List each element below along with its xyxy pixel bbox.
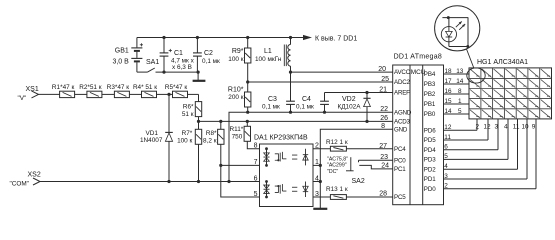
svg-text:XS1: XS1 [26,86,39,93]
svg-text:28: 28 [379,190,387,197]
svg-text:DD1 ATmega8: DD1 ATmega8 [394,54,442,61]
svg-text:0,1 мк: 0,1 мк [202,58,220,65]
svg-text:15: 15 [444,98,452,105]
svg-text:7: 7 [254,159,258,166]
svg-text:21: 21 [379,86,387,93]
svg-text:3,0 В: 3,0 В [112,58,129,65]
svg-text:200 к: 200 к [228,94,243,101]
svg-text:8: 8 [458,88,462,95]
svg-text:14: 14 [444,108,452,115]
svg-text:5: 5 [458,108,462,115]
svg-text:24: 24 [381,163,389,170]
svg-text:"AC299": "AC299" [327,163,347,169]
svg-text:100 мкГн: 100 мкГн [255,56,282,63]
svg-text:PC0: PC0 [394,157,406,164]
svg-text:12: 12 [444,124,452,131]
svg-text:12: 12 [484,123,492,130]
svg-text:9: 9 [532,123,536,130]
svg-text:PD5: PD5 [424,137,436,144]
svg-text:PC1: PC1 [394,166,406,173]
svg-text:XS2: XS2 [28,171,41,178]
svg-text:R8*: R8* [206,130,217,137]
svg-text:PD6: PD6 [424,127,436,134]
svg-text:"AC75,8": "AC75,8" [327,156,348,162]
svg-text:4: 4 [504,123,508,130]
svg-text:R2*51 к: R2*51 к [79,84,102,91]
svg-text:R5*47 к: R5*47 к [165,84,188,91]
svg-text:5: 5 [444,153,448,160]
svg-text:AGND: AGND [394,109,412,116]
svg-text:13: 13 [456,68,464,75]
svg-text:100 к: 100 к [228,56,243,63]
svg-text:"V": "V" [18,95,27,102]
svg-text:2: 2 [444,183,448,190]
svg-text:5: 5 [254,191,258,198]
svg-text:КД102А: КД102А [338,103,362,110]
svg-text:C4: C4 [302,96,311,103]
svg-text:14: 14 [456,78,464,85]
svg-text:750: 750 [232,134,243,141]
svg-text:1N4007: 1N4007 [140,137,163,144]
svg-text:х 6,3 В: х 6,3 В [172,64,192,71]
svg-text:ACD3: ACD3 [394,119,411,126]
svg-text:100 к: 100 к [177,138,192,145]
svg-text:C2: C2 [204,50,213,57]
svg-text:25: 25 [381,76,389,83]
svg-text:PD2: PD2 [424,166,436,173]
svg-text:PD1: PD1 [424,176,436,183]
svg-text:R4* 51 к: R4* 51 к [133,84,157,91]
svg-text:8,2 к: 8,2 к [203,138,217,145]
svg-text:3: 3 [444,173,448,180]
svg-text:26: 26 [380,115,388,122]
svg-text:PB1: PB1 [424,101,436,108]
svg-text:PB0: PB0 [424,111,436,118]
svg-text:"COM": "COM" [10,181,29,188]
svg-text:23: 23 [380,154,388,161]
svg-text:R11*: R11* [230,126,244,133]
svg-text:PD3: PD3 [424,157,436,164]
svg-text:AREF: AREF [394,90,410,97]
svg-text:8: 8 [381,123,385,130]
svg-text:6: 6 [444,144,448,151]
svg-text:VD2: VD2 [342,96,356,103]
svg-text:ADC2: ADC2 [394,79,411,86]
svg-text:8: 8 [254,143,258,150]
svg-text:К выв. 7 DD1: К выв. 7 DD1 [315,36,357,43]
svg-text:AVCC: AVCC [394,69,411,76]
svg-text:1: 1 [458,98,462,105]
svg-text:R6*: R6* [183,103,194,110]
svg-text:R9*: R9* [232,48,244,55]
svg-text:DA1 КР293КП4В: DA1 КР293КП4В [254,135,308,142]
svg-text:PD0: PD0 [424,186,436,193]
svg-text:16: 16 [444,88,452,95]
svg-text:18: 18 [444,68,452,75]
svg-text:PB2: PB2 [424,91,436,98]
svg-text:"DC": "DC" [327,169,338,175]
svg-text:51 к: 51 к [182,111,194,118]
svg-text:PD4: PD4 [424,147,436,154]
svg-text:PC4: PC4 [394,146,406,153]
svg-text:11: 11 [513,123,520,130]
svg-text:17: 17 [444,78,452,85]
svg-text:3: 3 [495,123,499,130]
svg-text:R7*: R7* [182,130,193,137]
svg-text:R1*47 к: R1*47 к [52,84,75,91]
svg-text:PB3: PB3 [424,81,436,88]
svg-text:L1: L1 [264,48,272,55]
svg-text:10: 10 [522,123,530,130]
svg-text:4: 4 [444,163,448,170]
svg-text:HG1 АЛС340А1: HG1 АЛС340А1 [477,59,528,66]
svg-text:0,1 мк: 0,1 мк [262,103,280,110]
svg-text:0,1 мк: 0,1 мк [296,103,314,110]
svg-text:SA2: SA2 [352,178,365,185]
svg-text:GND: GND [394,127,408,134]
svg-text:2: 2 [476,123,480,130]
svg-text:20: 20 [378,66,386,73]
svg-text:C1: C1 [174,50,183,57]
svg-text:R10*: R10* [228,86,244,93]
svg-text:22: 22 [380,106,388,113]
svg-text:PC5: PC5 [394,194,406,201]
svg-text:6: 6 [254,175,258,182]
svg-text:11: 11 [444,134,451,141]
svg-text:C3: C3 [268,96,277,103]
svg-text:SA1: SA1 [146,59,159,66]
svg-text:27: 27 [379,143,387,150]
svg-text:GB1: GB1 [115,47,129,54]
svg-text:R3*47 к: R3*47 к [107,84,130,91]
svg-text:R13 1 к: R13 1 к [326,186,348,193]
svg-text:R12 1 к: R12 1 к [326,139,348,146]
svg-text:PB4: PB4 [424,71,436,78]
